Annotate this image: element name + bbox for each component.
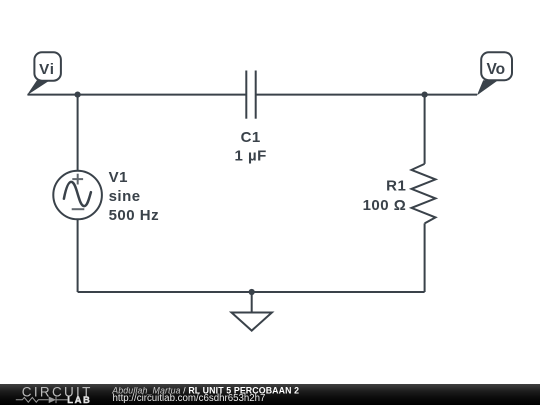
svg-text:LAB: LAB — [67, 395, 91, 405]
svg-text:Vo: Vo — [486, 61, 505, 78]
svg-text:Vi: Vi — [39, 61, 55, 78]
svg-text:http://circuitlab.com/c6sdhr65: http://circuitlab.com/c6sdhr653h2h7 — [113, 393, 266, 404]
svg-text:100 Ω: 100 Ω — [363, 197, 407, 214]
svg-text:500 Hz: 500 Hz — [109, 207, 160, 224]
svg-text:V1: V1 — [109, 169, 128, 186]
svg-text:1 µF: 1 µF — [235, 148, 267, 165]
svg-text:C1: C1 — [241, 129, 261, 146]
svg-text:R1: R1 — [386, 178, 406, 195]
svg-text:sine: sine — [109, 188, 141, 205]
